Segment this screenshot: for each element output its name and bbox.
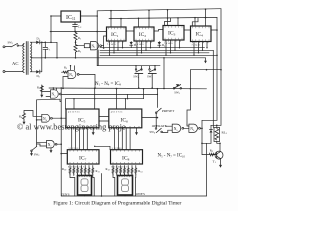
wire xtal in [76, 45, 85, 47]
wire N1 elbow drop [97, 50, 99, 66]
svg-text:N2: N2 [69, 73, 74, 78]
node rail31 x51 [50, 31, 52, 33]
wire N3 rail elbow [127, 94, 129, 98]
wire R1-R2 node [75, 41, 77, 44]
stubs N3 top [53, 88, 56, 90]
border bottom [61, 195, 206, 197]
svg-text:SW2: SW2 [34, 152, 40, 157]
node C1 bottom [45, 57, 47, 59]
node N4 input [36, 119, 38, 121]
wire relay top node [211, 124, 221, 126]
node SW5 top [154, 65, 155, 66]
resistor R4 [23, 113, 26, 120]
svg-text:SW1: SW1 [8, 41, 14, 46]
bus line3 [100, 52, 209, 54]
border outer top [97, 9, 221, 11]
node x202 [201, 143, 203, 145]
node R2 gnd [75, 57, 77, 59]
node mid column [101, 195, 103, 197]
transformer X1 primary [23, 44, 24, 73]
border left lower [60, 88, 62, 196]
resistor R3 [40, 85, 43, 92]
wire emitter [220, 159, 222, 165]
svg-text:R10: R10 [62, 167, 67, 172]
IC2 box [134, 27, 154, 41]
svg-text:8 13 9 10 12 11 7: 8 13 9 10 12 11 7 [68, 166, 85, 168]
wire secondary bottom lead [31, 71, 37, 73]
svg-text:N1 - N4 = IC9: N1 - N4 = IC9 [95, 82, 122, 87]
gate N1 [91, 42, 102, 50]
wire secondary center tap [31, 56, 43, 59]
node SW4 top [135, 65, 136, 66]
svg-text:T1: T1 [213, 160, 217, 165]
node collector [219, 143, 221, 145]
arrow rail end [204, 58, 207, 64]
resistor R1 [74, 32, 77, 42]
node x164 top [163, 57, 165, 59]
gate N5 [172, 124, 184, 132]
svg-text:C2: C2 [78, 25, 82, 30]
stubs IC3 bottom pins [166, 40, 180, 55]
watermark [17, 123, 126, 132]
diode D1 [36, 41, 45, 45]
node V+ stub [56, 57, 58, 59]
riser IC1 pins top [111, 11, 121, 27]
wire R4 to N4 [24, 111, 42, 117]
IC1 box [107, 27, 127, 41]
stubs IC4 bottom pins [194, 42, 207, 56]
svg-text:R12: R12 [106, 167, 110, 172]
wire N1 out [102, 46, 104, 48]
svg-text:TEN'S: TEN'S [61, 192, 70, 196]
node R1 top [75, 31, 77, 33]
capacitor C2 [73, 22, 78, 32]
wire secondary top lead [31, 41, 37, 43]
svg-text:R5: R5 [64, 66, 68, 71]
display DIS1 [78, 176, 92, 196]
svg-text:C1: C1 [47, 47, 51, 52]
wire N7 inputs [37, 142, 47, 146]
node SW3 right rail [190, 88, 192, 90]
wire rail y65.7 [97, 65, 160, 67]
node x143.5 [143, 88, 145, 90]
svg-text:© al www.bestengineering proje: © al www.bestengineering proje [17, 123, 126, 132]
wire N6 out [200, 127, 202, 129]
wire GND rail [33, 57, 206, 59]
switch SW1 [3, 43, 23, 47]
node preset rail [157, 88, 159, 90]
node R2 mid [75, 42, 77, 44]
wires IC5 to IC7 [72, 128, 88, 150]
node risers rail2 [110, 8, 206, 19]
svg-text:IC11: IC11 [66, 15, 76, 21]
svg-text:RL1: RL1 [222, 131, 228, 136]
node sw4 rail88 [138, 87, 140, 89]
wire N7 out [57, 143, 61, 145]
wire base feed [202, 143, 209, 154]
bus line1 [100, 47, 205, 49]
node IC4 right [216, 29, 218, 31]
gate N6 [189, 124, 201, 132]
node IC11 left [50, 15, 52, 17]
wire relay bottom to collector [217, 142, 220, 152]
IC5 box [66, 109, 99, 128]
svg-text:R9: R9 [210, 148, 213, 153]
node sw5 rail88 [151, 87, 153, 89]
node x164 bottom [163, 88, 165, 90]
wire DIS2 gnd [124, 195, 126, 196]
wire N4 input2 [37, 119, 42, 121]
transistor T1 [212, 151, 223, 159]
node preset column [157, 117, 159, 119]
wire x36.6 feeder [36, 100, 38, 147]
wires resistors to display1 [70, 174, 94, 196]
wire IC4 right link [211, 29, 217, 31]
node N7 out border [60, 143, 62, 145]
svg-text:5 1 2 9 8 6: 5 1 2 9 8 6 [69, 148, 80, 150]
stubs IC5 top pins [74, 88, 95, 109]
wire IC6 right to preset column [142, 117, 158, 119]
gate N4 [42, 114, 53, 122]
svg-text:IC8: IC8 [122, 156, 130, 162]
svg-text:N4: N4 [43, 117, 48, 122]
ground T1 [219, 165, 222, 168]
capacitor C1 [43, 42, 48, 58]
node border y88 [60, 87, 62, 89]
svg-text:Figure 1: Circuit Diagram of P: Figure 1: Circuit Diagram of Programmabl… [53, 199, 181, 206]
gate N2 [68, 70, 79, 78]
svg-text:N5 - N7 = IC10: N5 - N7 = IC10 [158, 154, 186, 159]
svg-text:R2: R2 [78, 49, 81, 54]
wire rail y98.7 [65, 98, 143, 100]
svg-text:7 4 14 15: 7 4 14 15 [164, 43, 173, 45]
digit 8 DIS1 [81, 179, 88, 192]
node relay top [216, 125, 218, 127]
wire rail y88 [49, 87, 207, 90]
transformer core [25, 42, 27, 75]
wire node line y143.3 [202, 142, 211, 144]
svg-text:IC7: IC7 [79, 156, 87, 162]
wire N1 up to IC1 [104, 36, 107, 46]
svg-text:IC2: IC2 [139, 32, 147, 38]
node N2 stub [70, 65, 71, 66]
pin numbers faint [68, 43, 201, 168]
riser IC3 pins top [168, 10, 179, 26]
ground IC5 [92, 128, 95, 135]
wire diode join [41, 42, 43, 72]
svg-text:OPERATE: OPERATE [152, 124, 167, 128]
resistor bank R11 (7x) [112, 166, 137, 175]
riser IC4 pins top [195, 9, 206, 26]
node N2 input rail [62, 88, 64, 90]
svg-text:PRESET: PRESET [162, 109, 175, 113]
IC4 box [191, 26, 212, 42]
wire N5 input top [166, 125, 172, 127]
svg-text:D1: D1 [37, 37, 40, 42]
ground SW2 [30, 153, 33, 156]
wire IC11 right to border [81, 15, 98, 17]
wires IC6 to IC8 [115, 128, 131, 150]
stubs IC6 top pins [117, 89, 126, 109]
IC6 box [109, 109, 142, 128]
wire line y69.7 right [190, 69, 221, 71]
diode D4 [158, 42, 161, 48]
transformer X1 secondary [31, 42, 32, 72]
svg-text:ONE'S: ONE'S [136, 192, 145, 196]
node rectifier [41, 42, 43, 44]
display DIS2 [118, 176, 133, 196]
node bus4 right [216, 55, 218, 57]
svg-text:R11: R11 [96, 169, 100, 174]
bus line4 [100, 54, 217, 56]
wire rail y98.7 left drop [64, 99, 66, 109]
wire mid column [101, 174, 103, 197]
wire IC7 left stub [61, 153, 67, 155]
node N3elbow [127, 98, 128, 99]
wire drop x190 [187, 70, 190, 125]
svg-text:7 4 14 15: 7 4 14 15 [135, 44, 144, 46]
resistor R9 [209, 153, 215, 156]
svg-text:IC3: IC3 [168, 31, 176, 37]
switch OPERATE SW6 [155, 128, 172, 133]
wire IC5-IC7 right link [95, 146, 110, 149]
wire V+ riser x51 [50, 16, 52, 42]
riser IC2 pins top [139, 10, 150, 27]
stubs IC2 bottom pins [137, 41, 151, 55]
svg-text:D2: D2 [37, 74, 40, 79]
wire hook IC4 top [192, 18, 198, 26]
diode D2 [36, 70, 42, 74]
border outer right [220, 9, 222, 126]
wire preset riser [156, 89, 158, 108]
node y69.7 inner border [206, 69, 208, 71]
wire IC1-IC2 link [126, 30, 134, 32]
bus line2 [100, 49, 213, 51]
switch PRESET [155, 108, 161, 117]
node V+ x51 [50, 42, 52, 44]
wire rail y99.8 [37, 98, 60, 101]
node N1 bus [103, 47, 105, 49]
node link [94, 146, 95, 147]
wire N4 out [52, 117, 61, 119]
node N3 stub [53, 87, 54, 88]
resistor bank R10 (7x) [69, 166, 94, 175]
svg-text:7 4 14 15: 7 4 14 15 [107, 44, 116, 46]
wire N6 input2 [187, 125, 189, 127]
wire N3 out rail y94.4 [61, 93, 157, 95]
switch SW5 [148, 66, 156, 88]
node C2 bottom [74, 31, 76, 33]
node N4 out border [60, 117, 62, 119]
svg-text:N5: N5 [174, 127, 179, 132]
nodes IC5 top [73, 88, 126, 100]
wire IC11 left [51, 15, 61, 17]
stubs IC1 bottom pins [110, 41, 123, 55]
node N6 out [201, 128, 203, 130]
IC11 box U11 [61, 11, 81, 22]
wire supply rail2 top [109, 17, 217, 18]
svg-text:IC1: IC1 [111, 32, 119, 38]
wire IC5-IC6 links [99, 117, 109, 122]
wire operate riser [155, 118, 157, 128]
svg-text:R13: R13 [138, 169, 143, 174]
pin ticks top ICs [109, 40, 209, 43]
diode D3 [130, 42, 133, 48]
pin ticks middle ICs [70, 126, 140, 177]
wire R2 bottom gnd [75, 53, 77, 58]
svg-text:N6: N6 [190, 127, 195, 132]
wire x164 drop [163, 58, 165, 89]
ground R3 [40, 92, 43, 97]
svg-text:N7: N7 [48, 143, 53, 148]
svg-text:4 6 1 2 7 3 5: 4 6 1 2 7 3 5 [68, 112, 80, 114]
svg-text:SW3: SW3 [174, 91, 181, 96]
wire relay top lead [216, 125, 218, 127]
svg-text:N1: N1 [92, 44, 97, 49]
svg-text:R1: R1 [78, 36, 81, 41]
wires resistors to display2 [113, 174, 136, 196]
wire N2 inputs [62, 71, 69, 88]
IC3 box [163, 26, 184, 41]
node border rail31 [96, 31, 98, 33]
switch SW2 [31, 146, 37, 153]
switch SW4 [135, 66, 143, 88]
relay RL1 coil [214, 128, 220, 142]
wire N5-N6 [184, 127, 189, 129]
svg-text:IC4: IC4 [196, 32, 204, 38]
wire R3 to N3 [42, 85, 51, 92]
wire primary leads [23, 44, 25, 46]
wire rail y31.5 [50, 31, 107, 33]
wire bus2 drop [212, 50, 214, 127]
resistor R2 [74, 44, 77, 54]
wire rail2 to node [202, 120, 217, 143]
IC8 box [111, 150, 143, 164]
svg-text:AC: AC [12, 61, 18, 66]
svg-text:N3: N3 [52, 93, 57, 98]
wire IC5 left stub [61, 117, 66, 119]
wire hook IC3 top [165, 18, 171, 26]
wire V+ stub right [51, 42, 57, 58]
ground N7 [50, 148, 53, 153]
gate N7 [47, 141, 57, 148]
node border ic11 [96, 15, 98, 17]
wire N3 input2 [46, 96, 50, 98]
diode D5 freewheel [210, 125, 213, 143]
digit 8 DIS2 [122, 179, 129, 192]
AC terminal bottom [3, 71, 23, 73]
border left upper [96, 11, 98, 66]
svg-text:SW6: SW6 [150, 130, 157, 135]
wire x36.6 elbow [60, 99, 61, 101]
pin ticks inner top ICs [109, 26, 210, 41]
crystal X1 [84, 44, 90, 48]
nodes bus stubs [109, 47, 208, 56]
stubs N2 top [71, 66, 75, 71]
switch SW3 [173, 84, 181, 89]
IC7 box [67, 150, 99, 164]
node N2 out rail [94, 87, 96, 89]
svg-text:5 1 2 9 8 6: 5 1 2 9 8 6 [112, 148, 123, 150]
wire IC2-IC3 link [154, 30, 163, 32]
node y69.7 border [220, 69, 222, 71]
wire IC3-IC4 link [184, 29, 191, 31]
svg-text:4 6 1 2 7 3 5: 4 6 1 2 7 3 5 [111, 112, 123, 114]
border right lower [206, 143, 208, 196]
node C1 top [45, 42, 47, 44]
ground IC6 [135, 128, 138, 135]
svg-text:8 13 9 10 12 11 7: 8 13 9 10 12 11 7 [111, 166, 128, 168]
wire DIS1 gnd [84, 195, 86, 196]
wire x143.5 riser [143, 89, 145, 99]
wire V+ to x51 [42, 41, 51, 43]
node IC7 left [60, 153, 62, 155]
wire N2 out [79, 74, 95, 88]
svg-text:7 4 14 15: 7 4 14 15 [192, 45, 201, 47]
ground R4 [23, 120, 26, 125]
gate N3 [50, 90, 61, 98]
border inner right [216, 17, 218, 120]
